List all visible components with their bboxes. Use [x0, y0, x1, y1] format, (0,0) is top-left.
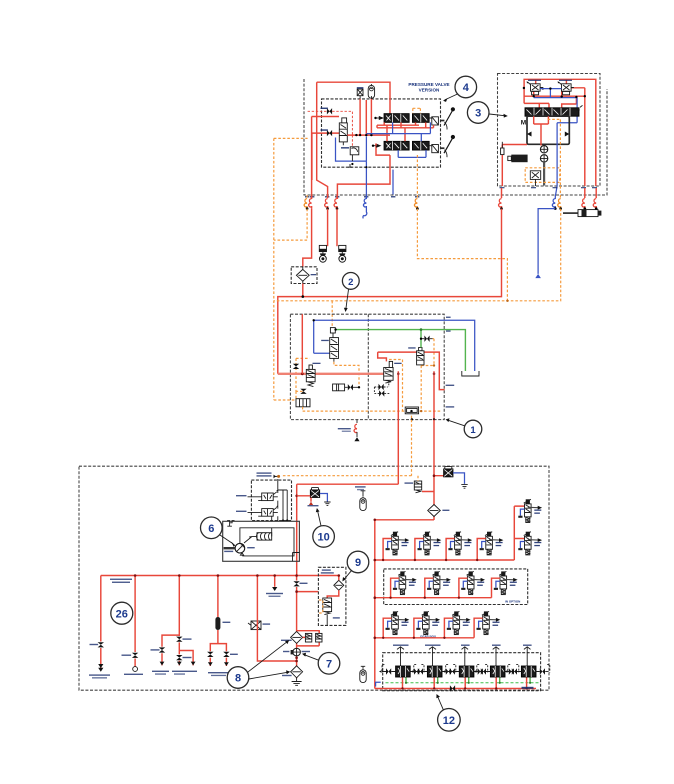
inline check on supply [450, 685, 455, 691]
small relief pin left [501, 148, 504, 155]
wire red second feed [312, 133, 339, 180]
transmission coupler below box [356, 420, 358, 423]
tank bracket [462, 371, 479, 376]
bottom port ticks box3 [500, 187, 505, 188]
pump piping loop [240, 516, 294, 556]
lubrication drop arrow (return) [274, 576, 276, 587]
orifice below V2 [300, 389, 306, 394]
svg-text:2: 2 [348, 277, 353, 288]
purge block label [257, 472, 272, 473]
thermostat valve [319, 598, 340, 625]
coupler red box3 P [499, 199, 502, 207]
manifold sections [379, 664, 424, 677]
arrow from balloon 3 [489, 114, 505, 116]
red dashed pilot drop [351, 135, 353, 147]
pressure regulator near 10 [310, 488, 319, 498]
dashed red pilot line box [308, 111, 353, 135]
cylinder damper K1 [333, 384, 359, 391]
main relief valve middle [321, 328, 338, 362]
coupler red P2 [309, 199, 312, 207]
wire blue tank return to coupler [365, 161, 367, 199]
solenoid valve EV1 [527, 81, 543, 91]
electric motor block [511, 155, 527, 163]
EV1 sub-loop [532, 91, 539, 94]
wire red regulator feed [297, 496, 311, 502]
row 1 relief valves [386, 532, 410, 555]
accumulator 1 [360, 496, 366, 510]
svg-text:3: 3 [475, 108, 481, 120]
wire red top frame [317, 82, 390, 196]
suction filter diamond 2 [282, 666, 303, 678]
wire red top frame box3 [524, 79, 596, 186]
accumulator feed [361, 491, 366, 496]
wire red filter to main hose [302, 284, 304, 297]
arrow from balloon 4 [445, 94, 458, 100]
wire red to filter [303, 209, 312, 267]
inline restrictor capsule [215, 617, 220, 630]
orange pilot marks on valves [413, 108, 421, 113]
section divider [367, 314, 369, 419]
balloon 1 [464, 420, 482, 438]
wire red gearbox row [375, 618, 483, 638]
solenoid vent valve M [357, 89, 363, 96]
wire green pilot dashed [386, 682, 540, 684]
wire red main return hose [278, 209, 502, 374]
blue tank hook [363, 206, 367, 218]
steering priority valve V3 [384, 361, 402, 383]
balloon 26 [111, 602, 133, 624]
port labels right of middle box [446, 385, 455, 386]
filter diamond main [428, 505, 450, 517]
thermo bypass pump [293, 648, 301, 656]
wire blue interconnect [366, 122, 430, 157]
svg-text:VERSION: VERSION [419, 88, 440, 93]
main hydraulic block outer enclosure [304, 79, 607, 195]
transmission enclosure [79, 466, 549, 690]
in option dashed box [384, 569, 528, 605]
coupler blue T [364, 199, 367, 207]
coupler red P4 [334, 199, 337, 207]
drive shaft pump [224, 547, 235, 549]
purge valve box [251, 480, 291, 520]
label EV2 [559, 80, 572, 81]
arrow from balloon 10 [318, 511, 322, 526]
central cooler line [296, 576, 298, 679]
junction dots middle box [301, 372, 304, 375]
pressure reducing valve (tall) [342, 118, 347, 123]
pressure regulator right [444, 467, 453, 477]
suction valve in orange box [525, 168, 560, 183]
coupler orange box3 LS [558, 199, 561, 207]
balloon 12 [438, 709, 461, 732]
svg-text:IN OPTION: IN OPTION [505, 600, 520, 604]
wire orange ls cross [274, 209, 561, 329]
arrow from balloon 7 [305, 655, 319, 660]
wire orange bottom ls [274, 339, 442, 420]
svg-text:12: 12 [443, 715, 455, 727]
junction dots bus [355, 134, 357, 136]
svg-text:26: 26 [116, 608, 128, 620]
wire orange ls main [274, 138, 308, 400]
right column lower relief valve [518, 532, 542, 555]
wire red left feed to reducing valve [312, 117, 339, 200]
balloon 8 [227, 667, 249, 689]
coupler blue box3 T [552, 199, 555, 207]
wire red drop 2 to filter [375, 420, 444, 689]
distributor enclosure [290, 314, 444, 419]
wire blue tank link [538, 209, 555, 274]
balloon 2 [342, 273, 359, 290]
thermostat diamond [334, 580, 344, 590]
wire red thermostat [327, 576, 339, 599]
label gearbox lubrication [110, 579, 132, 580]
blue tank arrow end [535, 274, 541, 278]
accumulator top [368, 84, 374, 98]
manifold feeds from above [397, 647, 531, 666]
purge check fitting [274, 475, 278, 477]
red vertical drop from box [301, 314, 303, 374]
wire red thick supply [278, 373, 384, 375]
wire blue main return down [555, 123, 557, 199]
balloon 7 [318, 653, 340, 675]
arrows from balloon 8 [248, 642, 288, 673]
balloon 4 [455, 76, 477, 98]
wire red from inner box to port [337, 144, 390, 200]
coupler orange LS [415, 199, 418, 207]
section labels above [393, 645, 409, 646]
balloon 6 [201, 517, 223, 539]
arrow from balloon 6 [220, 535, 233, 544]
lubrication drop 4 cluster [210, 576, 226, 667]
wire red heat exchanger branch [257, 576, 296, 662]
orifice rows below V3 [379, 384, 384, 390]
wire blue regulator drain [320, 494, 328, 502]
wire orange drop from distributor [282, 420, 412, 476]
wire green V4 feed [420, 330, 422, 348]
lubrication drop 1 [100, 576, 102, 669]
pilot block L1 [296, 399, 310, 407]
suction strainer coil [257, 533, 272, 540]
EV2 sub-loop [563, 91, 570, 94]
reducing valve V2 [306, 363, 320, 387]
balloon 10 [313, 526, 335, 548]
port ticks below outer box [305, 196, 419, 198]
purge internal piping [273, 479, 287, 521]
orifice check 2 [327, 130, 332, 136]
directional valve block row 1 [374, 114, 438, 125]
wire blue regulator 2 drain [453, 473, 465, 484]
breather vent [227, 521, 234, 527]
svg-text:10: 10 [317, 532, 329, 544]
junction dots central [295, 657, 298, 660]
label right on manifold [522, 687, 534, 689]
svg-text:9: 9 [355, 557, 361, 569]
orifice check 1 [327, 108, 332, 114]
gauge solenoid 2 [336, 209, 338, 247]
gear box row relief valves [386, 611, 410, 634]
right column upper relief valve [518, 499, 542, 522]
label EV1 [528, 80, 541, 81]
wire red to thermostat box [297, 591, 319, 593]
wire red into pump [502, 116, 548, 186]
wire red interconnect tangle [376, 122, 434, 145]
arrow from balloon 12 [438, 697, 444, 710]
svg-text:4: 4 [463, 82, 470, 94]
arrow from balloon 2 [346, 290, 349, 310]
coupler red cyl A [582, 199, 585, 207]
purge solenoid valve 2 [262, 505, 278, 516]
oil thermostat box [318, 567, 346, 625]
wire red V3 riser [378, 352, 445, 420]
charge pump circle [235, 543, 245, 553]
junction dots [433, 474, 436, 477]
wire red manifold supply [375, 678, 536, 689]
wire green line middle [336, 330, 466, 371]
wire orange ls line box3 [548, 119, 561, 199]
purge solenoid valve 1 [262, 490, 278, 501]
coupler red P3 [325, 199, 328, 207]
in-option relief valves [393, 571, 417, 594]
wire blue into relief [314, 352, 330, 354]
blue pilot stub left [376, 682, 381, 686]
pressure filter box [291, 267, 317, 284]
pump housing frame [527, 116, 569, 144]
port dots on inner box bottom [365, 166, 367, 168]
wire blue box3 top [534, 89, 577, 123]
lever actuator row 1 [441, 120, 445, 122]
bypass filter diamond 1 [281, 631, 303, 643]
steering cylinder [563, 210, 601, 217]
load sense valve V4 [408, 347, 424, 365]
junction dots box3 [523, 87, 525, 89]
svg-text:7: 7 [326, 659, 332, 671]
coupler red cyl B [593, 199, 596, 207]
svg-text:PRESSURE VALVE: PRESSURE VALVE [408, 82, 449, 87]
lubrication drop 2 [134, 576, 136, 667]
svg-text:1: 1 [470, 425, 476, 436]
pump box [223, 521, 300, 561]
tank ground symbol [292, 678, 302, 686]
pilot valve sub-box (item 4) [322, 99, 441, 167]
manifold enclosure [383, 653, 541, 691]
svg-text:6: 6 [208, 523, 214, 535]
wire red collector bus under M/accu [347, 99, 390, 135]
solenoid drain valve small [248, 621, 270, 630]
solenoid valve EV2 [558, 81, 574, 91]
wire red row1 [375, 506, 525, 560]
relief near top (left of diamond) [405, 481, 422, 493]
bypass branch with valves [297, 631, 320, 646]
priority valve block [525, 108, 579, 116]
lubrication drop 3 cluster [162, 576, 193, 666]
lever actuator row 2 [441, 147, 445, 149]
svg-text:8: 8 [235, 673, 241, 685]
drive shaft [543, 162, 545, 185]
wire red drop from distributor [297, 420, 399, 576]
wire blue short port [392, 170, 394, 195]
balloon 9 [347, 551, 369, 573]
wire red EV stubs [536, 79, 567, 84]
pump unit enclosure [498, 74, 601, 187]
shuttle block M1 [405, 407, 418, 414]
wire red in-option row [375, 578, 500, 598]
wire red bus lubrication [101, 575, 339, 577]
svg-text:M: M [521, 120, 526, 127]
wire blue tank line middle [314, 320, 475, 371]
balloon 3 [467, 102, 489, 124]
accumulator 2 [360, 668, 366, 682]
check orifice left [293, 364, 299, 369]
proportional pilot valve in blue frame [336, 137, 367, 162]
gauge solenoid 1 [327, 209, 329, 247]
coupler orange P1 [304, 199, 307, 207]
gear pump circles [540, 146, 547, 153]
arrow from balloon 1 [448, 420, 465, 426]
directional valve block row 2 [372, 141, 439, 152]
wire orange pilot from relief [296, 358, 359, 398]
arrow from balloon 9 [344, 571, 352, 580]
